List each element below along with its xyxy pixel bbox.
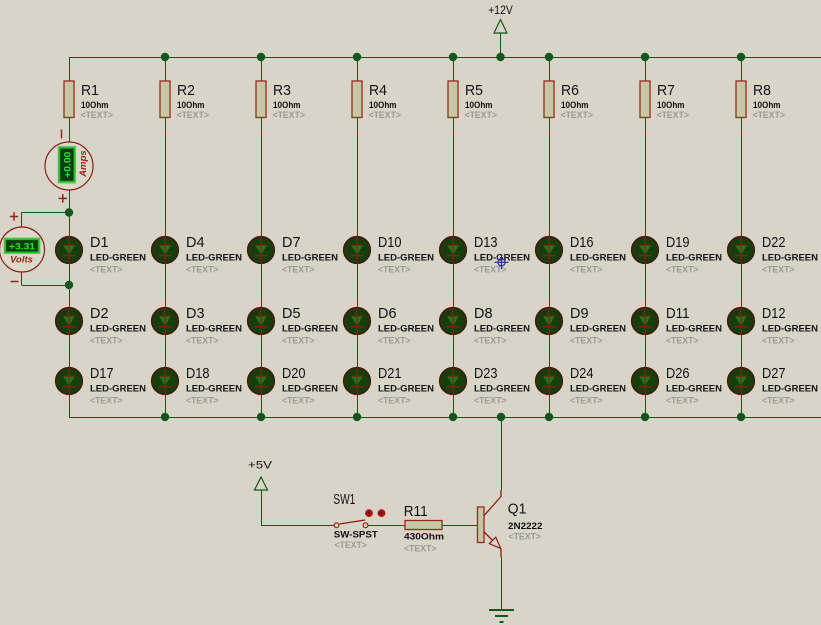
svg-text:<TEXT>: <TEXT> <box>186 336 219 347</box>
pin <box>165 394 167 404</box>
pin <box>741 118 743 134</box>
svg-text:<TEXT>: <TEXT> <box>378 396 411 407</box>
resistor R11 <box>404 503 444 555</box>
junction dot <box>257 53 265 61</box>
pin <box>261 299 263 308</box>
pin <box>645 263 647 272</box>
pin <box>69 263 71 272</box>
cursor crosshair <box>495 255 509 269</box>
svg-text:LED-GREEN: LED-GREEN <box>666 253 722 264</box>
svg-text:2N2222: 2N2222 <box>508 521 543 532</box>
pin <box>21 222 23 227</box>
svg-text:D9: D9 <box>570 305 589 322</box>
resistor R4 <box>352 81 401 121</box>
svg-text:<TEXT>: <TEXT> <box>90 396 123 407</box>
svg-text:LED-GREEN: LED-GREEN <box>186 384 242 395</box>
svg-text:LED-GREEN: LED-GREEN <box>666 384 722 395</box>
svg-text:D22: D22 <box>762 234 786 251</box>
pin <box>549 394 551 404</box>
LED D5 <box>248 305 339 347</box>
pin <box>453 263 455 272</box>
svg-text:D17: D17 <box>90 365 114 382</box>
LED D17 <box>56 365 147 407</box>
transistor Q1 <box>478 490 543 557</box>
svg-text:<TEXT>: <TEXT> <box>666 336 699 347</box>
svg-text:D27: D27 <box>762 365 786 382</box>
wire <box>21 213 23 223</box>
pin <box>165 224 167 237</box>
wire <box>261 343 263 358</box>
svg-text:<TEXT>: <TEXT> <box>509 532 542 543</box>
svg-text:LED-GREEN: LED-GREEN <box>570 324 626 335</box>
svg-text:R11: R11 <box>404 503 428 520</box>
svg-text:D20: D20 <box>282 365 306 382</box>
pin <box>453 118 455 134</box>
svg-text:R8: R8 <box>753 82 771 99</box>
wire <box>741 343 743 358</box>
wire <box>165 57 167 66</box>
pin <box>549 224 551 237</box>
svg-text:Amps: Amps <box>78 150 89 177</box>
LED D2 <box>56 305 147 347</box>
pin <box>21 272 23 278</box>
junction dot <box>161 53 169 61</box>
pin <box>741 394 743 404</box>
pin <box>69 359 71 368</box>
svg-text:D26: D26 <box>666 365 690 382</box>
wire <box>69 57 71 66</box>
svg-text:<TEXT>: <TEXT> <box>186 265 219 276</box>
pin <box>165 118 167 134</box>
svg-text:<TEXT>: <TEXT> <box>378 265 411 276</box>
pin <box>261 359 263 368</box>
svg-text:LED-GREEN: LED-GREEN <box>378 384 434 395</box>
svg-text:<TEXT>: <TEXT> <box>378 336 411 347</box>
svg-text:LED-GREEN: LED-GREEN <box>762 384 818 395</box>
wire <box>165 343 167 358</box>
wire <box>261 525 330 527</box>
LED D9 <box>536 305 627 347</box>
pin <box>261 118 263 134</box>
svg-text:D8: D8 <box>474 305 493 322</box>
pin <box>69 66 71 81</box>
pin <box>357 118 359 134</box>
LED D13 <box>440 234 531 276</box>
LED D26 <box>632 365 723 407</box>
svg-text:R1: R1 <box>81 82 99 99</box>
wire <box>261 272 263 298</box>
wire <box>741 404 743 417</box>
svg-text:+3.31: +3.31 <box>9 242 36 253</box>
svg-text:+0.00: +0.00 <box>62 152 73 178</box>
svg-text:+12V: +12V <box>488 3 513 17</box>
wire emitter <box>501 557 503 609</box>
svg-text:<TEXT>: <TEXT> <box>474 396 507 407</box>
pin <box>645 299 647 308</box>
svg-text:<TEXT>: <TEXT> <box>404 543 437 554</box>
wire <box>453 57 455 66</box>
svg-text:LED-GREEN: LED-GREEN <box>666 324 722 335</box>
svg-text:D19: D19 <box>666 234 690 251</box>
junction dot <box>641 413 649 421</box>
LED D21 <box>344 365 435 407</box>
pin <box>357 263 359 272</box>
wire <box>22 212 70 214</box>
svg-text:R2: R2 <box>177 82 195 99</box>
wire <box>645 272 647 298</box>
svg-text:D7: D7 <box>282 234 301 251</box>
resistor R3 <box>256 81 305 121</box>
svg-text:D16: D16 <box>570 234 594 251</box>
svg-text:LED-GREEN: LED-GREEN <box>186 324 242 335</box>
wire <box>69 343 71 358</box>
svg-text:D11: D11 <box>666 305 690 322</box>
svg-text:<TEXT>: <TEXT> <box>762 265 795 276</box>
svg-text:R3: R3 <box>273 82 291 99</box>
ammeter AM1 <box>45 130 93 203</box>
power +5V <box>248 460 273 526</box>
junction dot <box>496 53 504 61</box>
junction dot <box>737 413 745 421</box>
pin <box>261 224 263 237</box>
LED D4 <box>152 234 243 276</box>
pin <box>165 359 167 368</box>
switch SW1 <box>333 491 385 551</box>
pin <box>69 118 71 143</box>
ground <box>489 610 514 622</box>
pin <box>741 334 743 343</box>
pin <box>69 299 71 308</box>
pin <box>165 299 167 308</box>
wire <box>69 200 71 213</box>
wire <box>453 404 455 417</box>
junction dot <box>161 413 169 421</box>
pin <box>741 224 743 237</box>
junction dot <box>545 53 553 61</box>
pin <box>69 213 71 237</box>
svg-text:Volts: Volts <box>10 255 33 266</box>
wire +12V top rail <box>69 57 821 59</box>
svg-text:<TEXT>: <TEXT> <box>666 396 699 407</box>
svg-text:<TEXT>: <TEXT> <box>570 396 603 407</box>
svg-text:<TEXT>: <TEXT> <box>177 110 210 121</box>
pin <box>453 66 455 81</box>
pin <box>69 190 71 200</box>
svg-text:D24: D24 <box>570 365 594 382</box>
pin <box>453 299 455 308</box>
wire <box>165 404 167 417</box>
pin <box>261 263 263 272</box>
junction dot <box>641 53 649 61</box>
resistor R7 <box>640 81 689 121</box>
wire <box>261 404 263 417</box>
svg-text:LED-GREEN: LED-GREEN <box>282 324 338 335</box>
svg-text:<TEXT>: <TEXT> <box>561 110 594 121</box>
svg-text:LED-GREEN: LED-GREEN <box>90 324 146 335</box>
junction dot <box>545 413 553 421</box>
wire <box>21 278 23 286</box>
svg-text:<TEXT>: <TEXT> <box>762 336 795 347</box>
power +12V <box>488 3 513 57</box>
LED D1 <box>56 234 147 276</box>
wire <box>549 404 551 417</box>
junction dot <box>497 413 505 421</box>
svg-text:LED-GREEN: LED-GREEN <box>762 253 818 264</box>
wire <box>357 133 359 224</box>
pin <box>645 334 647 343</box>
pin <box>741 359 743 368</box>
svg-text:+5V: +5V <box>248 460 273 472</box>
LED D11 <box>632 305 723 347</box>
svg-text:<TEXT>: <TEXT> <box>81 110 114 121</box>
pin <box>741 299 743 308</box>
svg-text:<TEXT>: <TEXT> <box>657 110 690 121</box>
svg-text:LED-GREEN: LED-GREEN <box>90 384 146 395</box>
pin <box>357 334 359 343</box>
pin <box>549 299 551 308</box>
svg-text:<TEXT>: <TEXT> <box>186 396 219 407</box>
svg-text:D12: D12 <box>762 305 786 322</box>
svg-text:LED-GREEN: LED-GREEN <box>282 384 338 395</box>
wire <box>645 343 647 358</box>
pin <box>357 66 359 81</box>
LED D20 <box>248 365 339 407</box>
pin <box>330 525 334 527</box>
pin <box>442 525 478 527</box>
svg-text:D6: D6 <box>378 305 397 322</box>
wire <box>22 285 70 287</box>
LED D18 <box>152 365 243 407</box>
svg-text:D2: D2 <box>90 305 109 322</box>
wire <box>549 133 551 224</box>
svg-text:R7: R7 <box>657 82 675 99</box>
svg-text:<TEXT>: <TEXT> <box>90 265 123 276</box>
svg-text:D13: D13 <box>474 234 498 251</box>
svg-text:SW1: SW1 <box>333 491 355 508</box>
junction dot <box>257 413 265 421</box>
wire <box>357 343 359 358</box>
pin <box>165 263 167 272</box>
resistor R5 <box>448 81 497 121</box>
svg-text:R4: R4 <box>369 82 387 99</box>
resistor R2 <box>160 81 209 121</box>
svg-text:<TEXT>: <TEXT> <box>334 540 367 551</box>
svg-text:<TEXT>: <TEXT> <box>666 265 699 276</box>
LED D22 <box>728 234 819 276</box>
resistor R8 <box>736 81 785 121</box>
LED D8 <box>440 305 531 347</box>
svg-text:LED-GREEN: LED-GREEN <box>570 384 626 395</box>
pin <box>645 118 647 134</box>
svg-text:<TEXT>: <TEXT> <box>474 336 507 347</box>
LED D19 <box>632 234 723 276</box>
wire <box>549 57 551 66</box>
LED D23 <box>440 365 531 407</box>
wire <box>645 57 647 66</box>
wire <box>549 343 551 358</box>
pin <box>368 525 405 527</box>
svg-text:D10: D10 <box>378 234 402 251</box>
svg-text:LED-GREEN: LED-GREEN <box>378 253 434 264</box>
junction dot <box>353 413 361 421</box>
svg-text:LED-GREEN: LED-GREEN <box>378 324 434 335</box>
wire <box>261 57 263 66</box>
pin <box>69 263 71 272</box>
svg-text:430Ohm: 430Ohm <box>404 532 444 543</box>
LED D27 <box>728 365 819 407</box>
svg-text:<TEXT>: <TEXT> <box>570 265 603 276</box>
wire collector drop <box>501 417 503 490</box>
pin <box>357 299 359 308</box>
svg-text:<TEXT>: <TEXT> <box>762 396 795 407</box>
svg-text:D21: D21 <box>378 365 402 382</box>
svg-text:R6: R6 <box>561 82 579 99</box>
wire <box>741 57 743 66</box>
svg-text:<TEXT>: <TEXT> <box>273 110 306 121</box>
wire <box>69 404 71 417</box>
svg-text:D23: D23 <box>474 365 498 382</box>
voltmeter VM1 <box>0 212 45 281</box>
LED D6 <box>344 305 435 347</box>
pin <box>453 334 455 343</box>
svg-text:<TEXT>: <TEXT> <box>369 110 402 121</box>
pin <box>645 359 647 368</box>
svg-text:<TEXT>: <TEXT> <box>282 265 315 276</box>
svg-text:D5: D5 <box>282 305 301 322</box>
wire <box>645 404 647 417</box>
svg-text:<TEXT>: <TEXT> <box>282 336 315 347</box>
pin <box>645 394 647 404</box>
svg-text:<TEXT>: <TEXT> <box>90 336 123 347</box>
pin <box>165 334 167 343</box>
resistor R6 <box>544 81 593 121</box>
wire <box>357 57 359 66</box>
pin <box>645 224 647 237</box>
wire <box>165 272 167 298</box>
svg-text:LED-GREEN: LED-GREEN <box>186 253 242 264</box>
wire <box>741 133 743 224</box>
pin <box>357 224 359 237</box>
pin <box>453 359 455 368</box>
pin <box>549 118 551 134</box>
svg-text:<TEXT>: <TEXT> <box>465 110 498 121</box>
pin <box>165 66 167 81</box>
junction dot <box>737 53 745 61</box>
wire <box>261 133 263 224</box>
wire <box>453 272 455 298</box>
svg-text:<TEXT>: <TEXT> <box>282 396 315 407</box>
svg-text:LED-GREEN: LED-GREEN <box>282 253 338 264</box>
pin <box>261 394 263 404</box>
resistor R1 <box>64 81 113 121</box>
pin <box>261 66 263 81</box>
pin <box>645 66 647 81</box>
svg-text:D3: D3 <box>186 305 205 322</box>
wire <box>453 343 455 358</box>
junction dot <box>449 53 457 61</box>
junction dot <box>449 413 457 421</box>
wire bottom rail <box>69 417 821 419</box>
svg-text:D18: D18 <box>186 365 210 382</box>
pin <box>453 394 455 404</box>
svg-text:<TEXT>: <TEXT> <box>753 110 786 121</box>
pin <box>357 359 359 368</box>
svg-text:LED-GREEN: LED-GREEN <box>570 253 626 264</box>
junction dot node B <box>65 281 73 289</box>
svg-text:D4: D4 <box>186 234 205 251</box>
pin <box>549 359 551 368</box>
pin <box>357 394 359 404</box>
pin <box>549 334 551 343</box>
pin <box>741 263 743 272</box>
wire <box>165 133 167 224</box>
svg-text:SW-SPST: SW-SPST <box>334 529 378 540</box>
svg-text:LED-GREEN: LED-GREEN <box>90 253 146 264</box>
pin <box>261 334 263 343</box>
LED D16 <box>536 234 627 276</box>
svg-text:Q1: Q1 <box>508 501 527 518</box>
pin <box>453 224 455 237</box>
LED D24 <box>536 365 627 407</box>
wire <box>549 272 551 298</box>
junction dot node A <box>65 208 73 216</box>
wire <box>453 133 455 224</box>
svg-text:LED-GREEN: LED-GREEN <box>474 384 530 395</box>
pin <box>549 66 551 81</box>
wire <box>69 272 71 298</box>
svg-text:<TEXT>: <TEXT> <box>570 336 603 347</box>
svg-text:LED-GREEN: LED-GREEN <box>762 324 818 335</box>
wire <box>357 404 359 417</box>
svg-text:D1: D1 <box>90 234 109 251</box>
svg-text:LED-GREEN: LED-GREEN <box>474 324 530 335</box>
LED D10 <box>344 234 435 276</box>
junction dot <box>353 53 361 61</box>
LED D7 <box>248 234 339 276</box>
wire <box>645 133 647 224</box>
pin <box>741 66 743 81</box>
svg-text:R5: R5 <box>465 82 483 99</box>
LED D3 <box>152 305 243 347</box>
pin <box>549 263 551 272</box>
wire <box>741 272 743 298</box>
pin <box>69 334 71 343</box>
wire <box>357 272 359 298</box>
pin <box>69 394 71 404</box>
LED D12 <box>728 305 819 347</box>
